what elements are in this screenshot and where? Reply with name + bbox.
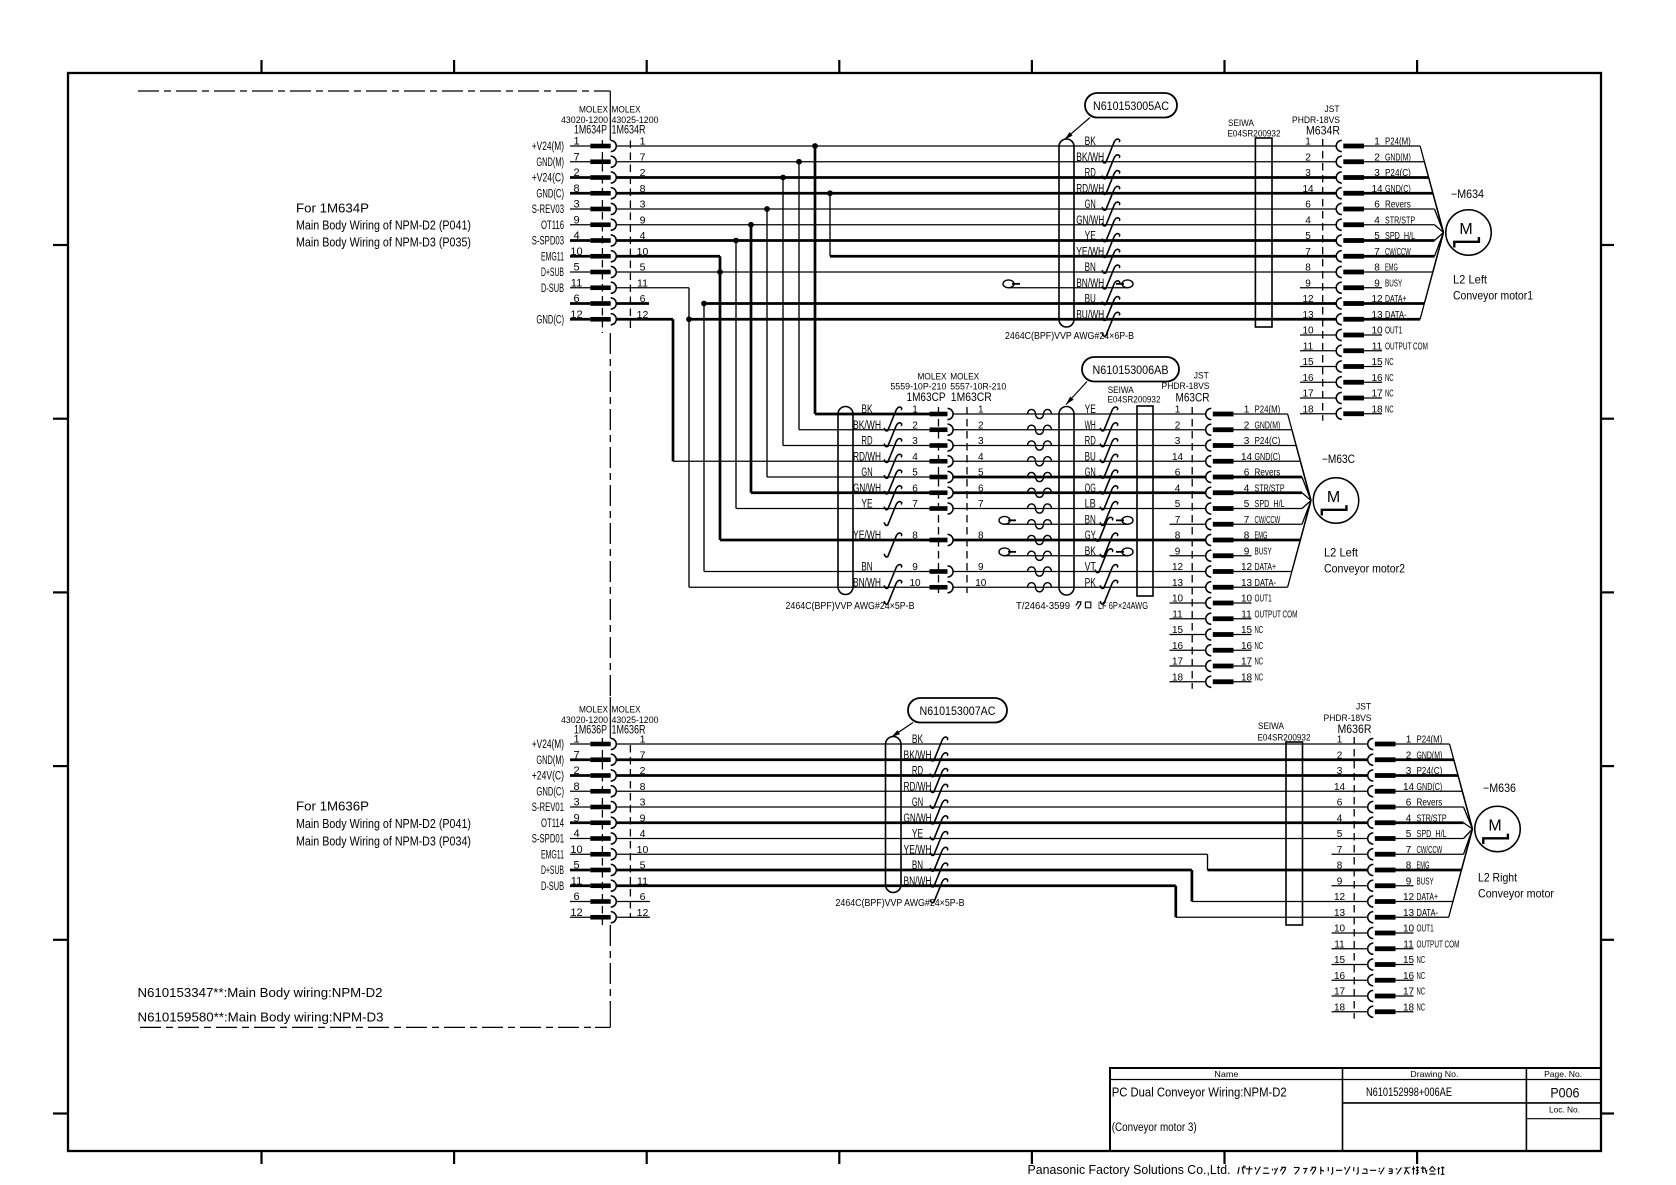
- wire RD pin2 to pin3: [616, 176, 1336, 179]
- svg-text:BK/WH: BK/WH: [853, 420, 881, 432]
- svg-text:OUT1: OUT1: [1417, 924, 1434, 935]
- svg-text:JST: JST: [1325, 104, 1340, 115]
- wire BN/WH to pin13 DATA-: [616, 884, 1176, 887]
- pin 10 wire stub: [570, 853, 590, 855]
- svg-text:WH: WH: [1085, 420, 1096, 432]
- svg-text:LF 6P×24AWG: LF 6P×24AWG: [1098, 600, 1148, 612]
- pin 5 contact: [1206, 503, 1212, 514]
- connector 1M636P housing dashed: [601, 738, 603, 925]
- svg-text:E04SR200932: E04SR200932: [1108, 395, 1161, 406]
- wire to motor: [1300, 501, 1311, 541]
- svg-text:RD/WH: RD/WH: [853, 451, 881, 463]
- wire BN to pin12 DATA+: [616, 869, 1192, 872]
- wire BK/WH pin7 to pin2: [616, 161, 1336, 163]
- pin 16 contact: [1206, 645, 1212, 656]
- svg-text:6: 6: [573, 293, 579, 305]
- wire to motor: [1420, 146, 1443, 233]
- pin 11 wire stub: [570, 287, 590, 289]
- harness boundary dashed line top: [138, 90, 610, 92]
- svg-text:BK: BK: [1085, 136, 1096, 148]
- wire EMG11 pin10 elbow: [616, 255, 720, 258]
- branch wire BK/WH: [798, 162, 800, 430]
- svg-text:M634R: M634R: [1306, 124, 1340, 138]
- pin 7 contact: [1368, 849, 1374, 860]
- pin contact: [590, 285, 610, 290]
- svg-text:NC: NC: [1255, 672, 1264, 683]
- svg-text:Conveyor motor: Conveyor motor: [1478, 887, 1554, 901]
- pin 12 wire stub: [570, 318, 590, 321]
- svg-text:1M634R: 1M634R: [612, 123, 646, 137]
- branch wire BN/WH: [688, 288, 690, 588]
- motor M636: [1475, 806, 1521, 852]
- svg-text:13: 13: [1172, 578, 1184, 589]
- connector housing dashed line: [1191, 407, 1193, 689]
- svg-text:L2 Left: L2 Left: [1453, 273, 1488, 287]
- pin contact: [590, 144, 610, 149]
- svg-text:4: 4: [912, 452, 918, 463]
- svg-text:S-SPD01: S-SPD01: [532, 834, 564, 846]
- pin 14 contact: [1336, 188, 1342, 199]
- svg-text:NC: NC: [1417, 987, 1426, 998]
- svg-text:NC: NC: [1385, 389, 1394, 400]
- pin 2 contact: [1368, 754, 1374, 765]
- svg-text:OT114: OT114: [541, 818, 564, 830]
- pin 10 contact: [1206, 597, 1212, 608]
- svg-text:4: 4: [573, 230, 579, 242]
- svg-text:7: 7: [1305, 247, 1311, 258]
- svg-text:L2 Left: L2 Left: [1324, 546, 1359, 560]
- svg-text:3: 3: [1337, 766, 1343, 777]
- pin 4 wire stub: [570, 239, 590, 242]
- svg-text:GND(C): GND(C): [536, 786, 564, 798]
- wire to motor: [1292, 501, 1311, 572]
- branch wire YE/WH: [719, 256, 722, 540]
- svg-text:1: 1: [912, 405, 918, 416]
- svg-text:NC: NC: [1255, 657, 1264, 668]
- svg-text:−M636: −M636: [1483, 783, 1516, 795]
- wire to motor: [1464, 823, 1473, 829]
- pin 7 contact: [1336, 251, 1342, 262]
- svg-text:9: 9: [912, 562, 918, 573]
- wire to motor: [1464, 807, 1473, 829]
- pin 14 contact: [1368, 786, 1374, 797]
- connector housing dashed line: [1353, 737, 1355, 1019]
- svg-text:BUSY: BUSY: [1385, 278, 1402, 289]
- harness boundary dashed line bottom: [140, 1026, 596, 1028]
- cable sheath left 1M63C: [838, 407, 853, 595]
- svg-text:6: 6: [1305, 200, 1311, 211]
- wire to motor: [1302, 493, 1311, 501]
- svg-text:2464C(BPF)VVP AWG#24×6P-B: 2464C(BPF)VVP AWG#24×6P-B: [1005, 330, 1134, 342]
- branch wire BN: [703, 304, 705, 572]
- svg-text:OG: OG: [1085, 483, 1096, 495]
- wire BU to pin12: [701, 301, 707, 307]
- wire BK/WH to pin2: [616, 758, 1368, 761]
- pin 2 wire stub: [570, 774, 590, 777]
- svg-text:MOLEX: MOLEX: [579, 705, 609, 716]
- svg-text:8: 8: [1337, 861, 1343, 872]
- svg-text:9: 9: [573, 812, 579, 824]
- svg-text:BN: BN: [1085, 262, 1096, 274]
- svg-text:4: 4: [1337, 813, 1343, 824]
- svg-text:YE: YE: [912, 829, 923, 841]
- wire YE to pin5: [616, 838, 1368, 840]
- svg-text:Conveyor motor2: Conveyor motor2: [1324, 562, 1405, 576]
- wire to motor: [1435, 209, 1444, 233]
- pin 1 contact: [1368, 738, 1374, 749]
- twisted pair marks: [1028, 409, 1052, 418]
- svg-text:2: 2: [912, 420, 918, 431]
- pin 2 wire stub: [570, 176, 590, 179]
- svg-text:M: M: [1327, 489, 1340, 506]
- svg-text:NC: NC: [1255, 625, 1264, 636]
- pin 7 wire stub: [570, 161, 590, 163]
- pin 12 contact: [1368, 896, 1374, 907]
- pin 11 contact: [1368, 943, 1374, 954]
- svg-text:GN/WH: GN/WH: [904, 813, 932, 825]
- pin contact: [590, 317, 610, 322]
- svg-text:1: 1: [1337, 735, 1343, 746]
- pin contact: [590, 915, 610, 920]
- pin 3 contact: [1336, 172, 1342, 183]
- svg-text:1: 1: [573, 734, 579, 746]
- svg-text:S-SPD03: S-SPD03: [532, 236, 564, 248]
- svg-text:S-REV03: S-REV03: [532, 204, 564, 216]
- svg-text:Name: Name: [1214, 1069, 1238, 1079]
- svg-text:NC: NC: [1255, 641, 1264, 652]
- svg-text:D+SUB: D+SUB: [541, 267, 564, 279]
- svg-text:GND(C): GND(C): [536, 188, 564, 200]
- wire OG thick: [953, 491, 1206, 494]
- svg-text:YE/WH: YE/WH: [1076, 246, 1104, 258]
- svg-text:6: 6: [573, 891, 579, 903]
- svg-text:P006: P006: [1550, 1085, 1579, 1101]
- pin contact: [590, 301, 610, 306]
- pin 1 contact: [1206, 408, 1212, 419]
- svg-text:RD: RD: [1085, 436, 1096, 448]
- svg-text:EMG11: EMG11: [541, 251, 564, 263]
- svg-text:PK: PK: [1085, 577, 1096, 589]
- pin contact: [590, 175, 610, 180]
- svg-text:GN: GN: [861, 467, 872, 479]
- svg-text:4: 4: [1175, 483, 1181, 494]
- svg-text:BU: BU: [1085, 294, 1096, 306]
- svg-text:3: 3: [1175, 436, 1181, 447]
- wire to motor: [1300, 461, 1311, 500]
- svg-text:M: M: [1459, 221, 1472, 238]
- svg-text:Main Body Wiring of NPM-D3 (P0: Main Body Wiring of NPM-D3 (P034): [296, 835, 471, 849]
- svg-text:BN: BN: [1085, 514, 1096, 526]
- svg-text:BUSY: BUSY: [1417, 876, 1434, 887]
- svg-text:GY: GY: [1085, 530, 1096, 542]
- svg-text:Main Body Wiring of NPM-D2 (P0: Main Body Wiring of NPM-D2 (P041): [296, 219, 471, 233]
- svg-text:10: 10: [570, 246, 582, 258]
- svg-text:N610153005AC: N610153005AC: [1093, 99, 1169, 113]
- frame zone ticks: [260, 60, 262, 73]
- svg-text:BK: BK: [912, 734, 923, 746]
- pin contact: [590, 222, 610, 227]
- svg-text:BK: BK: [861, 404, 872, 416]
- pin 12 wire stub: [570, 916, 590, 918]
- wire BK to pin1: [616, 743, 1368, 745]
- svg-text:+V24(C): +V24(C): [532, 173, 564, 185]
- pin contact: [590, 820, 610, 825]
- wire GN to pin6: [616, 806, 1368, 808]
- svg-text:NC: NC: [1417, 1002, 1426, 1013]
- svg-text:N610159580**:Main Body wiring:: N610159580**:Main Body wiring:NPM-D3: [138, 1010, 384, 1025]
- wire GY thick: [953, 539, 1206, 542]
- pin 1 wire stub: [570, 145, 590, 147]
- svg-text:BN: BN: [912, 860, 923, 872]
- pin 10 contact: [1336, 329, 1342, 340]
- svg-text:12: 12: [1172, 562, 1184, 573]
- wire to motor: [1433, 233, 1444, 273]
- svg-text:1M63CP: 1M63CP: [907, 390, 946, 404]
- svg-text:MOLEX: MOLEX: [612, 105, 642, 116]
- pin contact: [590, 254, 610, 259]
- svg-text:BU: BU: [1085, 451, 1096, 463]
- pin 12 contact: [1206, 566, 1212, 577]
- svg-text:8: 8: [1305, 263, 1311, 274]
- svg-text:12: 12: [570, 907, 582, 919]
- wire to motor: [1288, 501, 1311, 588]
- branch wire BK: [814, 146, 817, 414]
- svg-text:2464C(BPF)VVP AWG#24×5P-B: 2464C(BPF)VVP AWG#24×5P-B: [786, 600, 915, 612]
- svg-text:GN: GN: [1085, 199, 1096, 211]
- wire GN/WH pin9 to pin4: [616, 224, 1336, 226]
- pin 10 contact: [1368, 927, 1374, 938]
- svg-text:JST: JST: [1194, 371, 1209, 382]
- wire to motor: [1302, 501, 1311, 509]
- cable sheath N610153007AC: [886, 737, 902, 893]
- svg-text:EMG11: EMG11: [541, 849, 564, 861]
- pin 17 contact: [1206, 660, 1212, 671]
- svg-text:GN/WH: GN/WH: [1076, 215, 1104, 227]
- svg-text:GND(M): GND(M): [536, 157, 564, 169]
- svg-text:N610153007AC: N610153007AC: [920, 704, 996, 718]
- svg-text:OUT1: OUT1: [1385, 326, 1402, 337]
- svg-text:BN/WH: BN/WH: [904, 876, 932, 888]
- svg-text:BN/WH: BN/WH: [1076, 278, 1104, 290]
- svg-text:RD: RD: [1085, 168, 1096, 180]
- callout N610153006AB: [1082, 357, 1179, 382]
- wire to motor: [1462, 791, 1472, 829]
- svg-text:RD: RD: [912, 766, 923, 778]
- svg-text:BU/WH: BU/WH: [1076, 309, 1104, 321]
- wire to motor: [1458, 776, 1472, 830]
- svg-text:5: 5: [1175, 499, 1181, 510]
- pin 5 contact: [1336, 235, 1342, 246]
- connector 1M634P housing dashed: [601, 140, 603, 333]
- svg-text:D+SUB: D+SUB: [541, 865, 564, 877]
- svg-text:LB: LB: [1085, 499, 1096, 511]
- svg-text:5: 5: [912, 468, 918, 479]
- svg-text:3: 3: [912, 436, 918, 447]
- wire GN thick: [953, 476, 1206, 479]
- wire to motor: [1435, 225, 1444, 233]
- svg-text:6: 6: [1175, 468, 1181, 479]
- pin 6 contact: [1206, 471, 1212, 482]
- svg-text:YE: YE: [861, 499, 872, 511]
- svg-text:L2 Right: L2 Right: [1478, 871, 1518, 885]
- pin 11 contact: [1336, 345, 1342, 356]
- pin 3 contact: [1368, 770, 1374, 781]
- title block: [1110, 1068, 1601, 1151]
- pin 9 wire stub: [570, 224, 590, 226]
- callout N610153007AC: [908, 698, 1007, 723]
- svg-text:BK/WH: BK/WH: [1076, 152, 1104, 164]
- pin 3 contact: [1206, 440, 1212, 451]
- branch wire GN/WH: [750, 225, 753, 493]
- pin 17 contact: [1336, 392, 1342, 403]
- svg-text:5: 5: [1337, 829, 1343, 840]
- wire to motor: [1461, 829, 1472, 870]
- pin 3 wire stub: [570, 208, 590, 210]
- pin 5 contact: [1368, 833, 1374, 844]
- svg-text:1: 1: [1305, 137, 1311, 148]
- svg-text:M636R: M636R: [1338, 722, 1372, 736]
- svg-text:PC Dual Conveyor Wiring:NPM-D2: PC Dual Conveyor Wiring:NPM-D2: [1112, 1086, 1287, 1100]
- svg-text:11: 11: [571, 875, 582, 887]
- pin 2 contact: [1206, 424, 1212, 435]
- svg-text:GND(M): GND(M): [536, 755, 564, 767]
- wire BN pin5 to pin8: [616, 271, 1336, 273]
- svg-text:YE: YE: [1085, 404, 1096, 416]
- ferrite SEIWA bottom: [1286, 742, 1303, 925]
- harness boundary dashed vertical lower: [609, 925, 611, 1004]
- pin 11 wire stub: [570, 884, 590, 887]
- pin contact: [590, 773, 610, 778]
- wire RD/WH to pin14: [616, 790, 1368, 792]
- wire pin12 stub: [616, 916, 650, 918]
- pin 18 contact: [1368, 1006, 1374, 1017]
- pin 1 contact: [1336, 140, 1342, 151]
- pin 11 contact: [1206, 613, 1212, 624]
- pin 3 wire stub: [570, 806, 590, 808]
- harness boundary dashed vertical: [609, 333, 611, 697]
- svg-text:8: 8: [1175, 531, 1181, 542]
- svg-text:E04SR200932: E04SR200932: [1258, 733, 1311, 744]
- pin 4 contact: [1206, 487, 1212, 498]
- wire to motor: [1292, 430, 1311, 501]
- wire BN unused: [999, 516, 1010, 524]
- pin 13 contact: [1206, 582, 1212, 593]
- svg-text:6: 6: [1337, 798, 1343, 809]
- svg-text:8: 8: [573, 183, 579, 195]
- pin 16 contact: [1368, 975, 1374, 986]
- connector 1M636R housing dashed: [629, 745, 631, 918]
- ferrite SEIWA middle: [1137, 406, 1153, 596]
- wire BN/WH unused: [1003, 280, 1014, 288]
- label divider 1M636P/1M636R: [609, 697, 611, 739]
- svg-text:3: 3: [1305, 168, 1311, 179]
- wire to motor: [1429, 178, 1444, 233]
- svg-text:14: 14: [1172, 452, 1184, 463]
- svg-text:Conveyor motor1: Conveyor motor1: [1453, 289, 1533, 303]
- pin contact: [590, 836, 610, 841]
- svg-text:1M634P: 1M634P: [574, 123, 607, 137]
- wire to motor: [1464, 829, 1473, 839]
- pin 4 contact: [1336, 219, 1342, 230]
- pin contact: [590, 191, 610, 196]
- pin contact: [590, 238, 610, 243]
- pin 4 contact: [1368, 817, 1374, 828]
- svg-text:YE: YE: [1085, 231, 1096, 243]
- pin 9 contact: [1206, 550, 1212, 561]
- svg-text:NC: NC: [1417, 955, 1426, 966]
- wire to motor: [1450, 744, 1473, 829]
- wire to motor: [1302, 477, 1311, 501]
- pin 6 wire stub: [570, 302, 590, 305]
- svg-text:For 1M634P: For 1M634P: [296, 202, 369, 216]
- svg-text:Main Body Wiring of NPM-D3 (P0: Main Body Wiring of NPM-D3 (P035): [296, 236, 471, 250]
- wire GND(C) pin12 elbow: [616, 318, 673, 321]
- pin 7 contact: [1206, 519, 1212, 530]
- svg-text:For 1M636P: For 1M636P: [296, 800, 369, 814]
- svg-text:NC: NC: [1417, 971, 1426, 982]
- pin 6 contact: [1336, 203, 1342, 214]
- pin 8 wire stub: [570, 192, 590, 195]
- wire to motor: [1420, 233, 1443, 320]
- svg-text:2464C(BPF)VVP AWG#24×5P-B: 2464C(BPF)VVP AWG#24×5P-B: [836, 897, 965, 909]
- pin 7 wire stub: [570, 758, 590, 761]
- connector housing dashed line: [1322, 139, 1324, 421]
- pin 18 contact: [1336, 408, 1342, 419]
- svg-text:NC: NC: [1385, 404, 1394, 415]
- wire to motor: [1453, 829, 1473, 902]
- svg-text:M: M: [1488, 818, 1501, 835]
- motor M63C: [1313, 478, 1359, 524]
- wire YE/WH to pin8 EMG: [616, 853, 1207, 855]
- pin 18 contact: [1206, 676, 1212, 687]
- svg-text:GN: GN: [1085, 467, 1096, 479]
- svg-text:N610153347**:Main Body wiring:: N610153347**:Main Body wiring:NPM-D2: [138, 985, 383, 1000]
- branch wire GN: [766, 209, 768, 477]
- svg-text:8: 8: [912, 531, 918, 542]
- branch wire RD: [782, 178, 784, 446]
- wire to motor: [1464, 829, 1473, 854]
- svg-text:1M63CR: 1M63CR: [951, 390, 992, 404]
- svg-text:2: 2: [1337, 750, 1343, 761]
- pin 5 wire stub: [570, 869, 590, 872]
- svg-text:2: 2: [1175, 420, 1181, 431]
- svg-text:1: 1: [573, 136, 579, 148]
- pin contact: [590, 868, 610, 873]
- svg-text:13: 13: [1302, 310, 1314, 321]
- pin 9 contact: [1368, 880, 1374, 891]
- wire to motor: [1302, 501, 1311, 525]
- svg-text:OT116: OT116: [541, 220, 564, 232]
- svg-text:OUTPUT COM: OUTPUT COM: [1255, 609, 1298, 620]
- svg-text:BK: BK: [1085, 546, 1096, 558]
- svg-text:+V24(M): +V24(M): [532, 739, 564, 751]
- label divider 1M634P/1M634R: [609, 91, 611, 141]
- svg-text:M63CR: M63CR: [1176, 391, 1210, 405]
- wire GN/WH to pin4: [616, 821, 1368, 824]
- svg-text:1: 1: [1175, 405, 1181, 416]
- pin 8 contact: [1336, 266, 1342, 277]
- svg-text:7: 7: [573, 749, 579, 761]
- svg-text:GND(C): GND(C): [536, 314, 564, 326]
- pin 16 contact: [1336, 377, 1342, 388]
- wire RD to pin3: [616, 774, 1368, 777]
- pin contact: [590, 883, 610, 888]
- svg-text:OUTPUT COM: OUTPUT COM: [1385, 341, 1428, 352]
- svg-text:Main Body Wiring of NPM-D2 (P0: Main Body Wiring of NPM-D2 (P041): [296, 817, 471, 831]
- svg-text:14: 14: [1302, 184, 1314, 195]
- svg-text:JST: JST: [1356, 702, 1371, 713]
- pin 5 wire stub: [570, 271, 590, 273]
